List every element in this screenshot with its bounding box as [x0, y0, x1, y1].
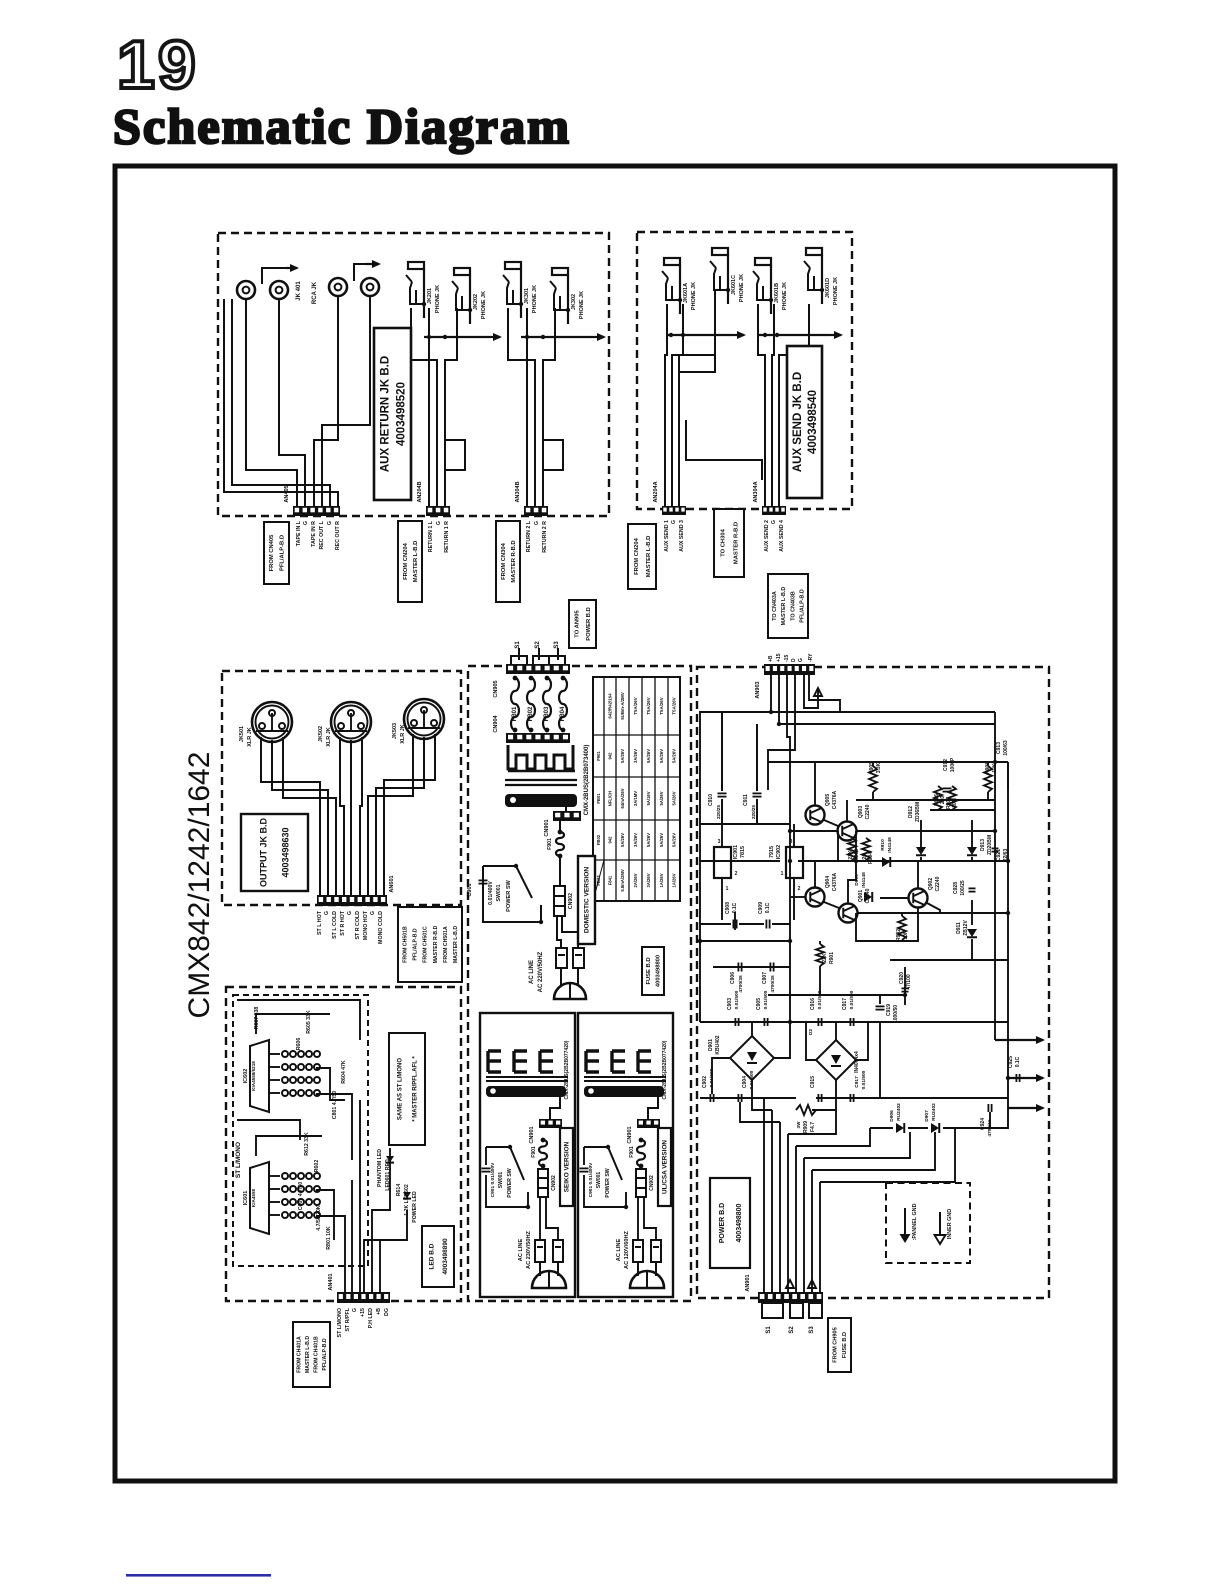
- wire XLR lead 6: [360, 737, 362, 895]
- svg-text:C920: C920: [899, 972, 905, 984]
- wire return1 1: [411, 308, 429, 506]
- version label SEIKO VERSION: [560, 1128, 573, 1206]
- wire cap bus: [700, 923, 731, 925]
- svg-text:PHONE JK: PHONE JK: [481, 291, 487, 319]
- transformer cores: [584, 1051, 666, 1097]
- wire mid vert 856: [855, 831, 857, 861]
- resistor R903 symbol: [848, 838, 856, 860]
- wire led b: [256, 1014, 330, 1034]
- ref TO CH304 MASTER R-B.D: [714, 509, 744, 577]
- capacitor C907 4700/35: [762, 963, 776, 993]
- svg-text:MASTER L-B.D: MASTER L-B.D: [305, 1336, 311, 1373]
- svg-text:FB03: FB03: [596, 875, 601, 886]
- svg-text:3: 3: [718, 839, 721, 845]
- svg-text:IC601: IC601: [243, 1191, 249, 1206]
- connector CN902 (SEIKO VERSION): [538, 1169, 557, 1197]
- wire vert 735: [734, 912, 736, 930]
- svg-text:F901: F901: [531, 1146, 537, 1158]
- capacitor C906 4700/35: [730, 963, 744, 993]
- svg-text:JK302: JK302: [571, 294, 577, 310]
- jack JK601A PHONE JK: [662, 258, 682, 314]
- tab S1: [762, 1303, 783, 1318]
- fuse FB04: [559, 676, 567, 733]
- svg-text:CMX-2BUS(2B2B077420): CMX-2BUS(2B2B077420): [564, 1040, 570, 1099]
- wire mid vert 838: [837, 831, 839, 861]
- svg-text:DG: DG: [384, 1308, 390, 1316]
- svg-text:CN904: CN904: [493, 715, 499, 733]
- ref FROM CH401A/B: [293, 1322, 330, 1387]
- AUX RETURN JK board dashed outline: [218, 233, 609, 516]
- capacitor C909 0.1C: [758, 902, 771, 929]
- svg-text:C911: C911: [743, 794, 749, 806]
- wire hbus 1098: [700, 1097, 796, 1099]
- svg-text:4003498800: 4003498800: [656, 955, 662, 987]
- svg-text:FROM CH501C: FROM CH501C: [423, 926, 429, 963]
- wire rail 762: [768, 761, 1008, 763]
- svg-text:2: 2: [798, 886, 801, 892]
- wire rail 810b: [930, 809, 995, 811]
- svg-text:FB04: FB04: [560, 706, 566, 721]
- op-amp IC601 KIA4558: [250, 1162, 320, 1234]
- svg-text:AN304A: AN304A: [753, 481, 759, 502]
- ref FROM CN204 MASTER L-B.D: [398, 521, 422, 602]
- capacitor C901: [467, 880, 488, 896]
- tab S2: [790, 1303, 803, 1318]
- jack JK501 XLR: [252, 702, 292, 742]
- footer blue rule: [126, 1574, 271, 1577]
- svg-text:0.01/500: 0.01/500: [817, 990, 823, 1009]
- svg-text:RU2402: RU2402: [931, 1103, 937, 1121]
- version label DOMESTIC: [578, 856, 595, 944]
- svg-text:D2: D2: [808, 1029, 814, 1035]
- svg-text:R901: R901: [829, 952, 835, 964]
- outer border frame: [115, 166, 1115, 1481]
- fuse FB01: [511, 676, 519, 733]
- wire aux send cross jog: [686, 420, 762, 480]
- svg-text:0.1C: 0.1C: [765, 902, 771, 913]
- svg-text:4700/35: 4700/35: [770, 975, 776, 993]
- wire led e: [237, 1120, 300, 1140]
- wire q904 leads: [814, 861, 816, 888]
- ref FROM CH905 FUSE B.D: [828, 1318, 851, 1372]
- svg-text:2: 2: [735, 871, 738, 877]
- wire fuse to CN902: [559, 856, 561, 886]
- resistor R904 symbol: [862, 838, 870, 860]
- connector AN405: [284, 485, 340, 516]
- plug prong holders (domestic): [556, 948, 567, 968]
- svg-text:Q901: Q901: [858, 890, 864, 902]
- wire led m: [364, 1210, 407, 1292]
- wire ground bus return2: [521, 333, 606, 341]
- svg-text:JK502: JK502: [318, 726, 324, 742]
- ref FROM CN304 MASTER R-B.D: [496, 521, 520, 602]
- wire aux send 4: [758, 304, 765, 506]
- svg-text:C801 4.7/50: C801 4.7/50: [332, 1091, 338, 1119]
- svg-text:C601 4.7/50: C601 4.7/50: [298, 1182, 304, 1210]
- svg-text:PHONE JK: PHONE JK: [435, 285, 441, 313]
- capacitor C910 220/25: [708, 793, 727, 819]
- svg-text:19: 19: [117, 27, 199, 103]
- wire led f: [256, 1136, 322, 1156]
- svg-text:AUX SEND 4: AUX SEND 4: [779, 520, 785, 552]
- svg-text:MASTER R-B.D: MASTER R-B.D: [733, 522, 739, 564]
- svg-text:F901: F901: [547, 838, 553, 850]
- jack JK401L RCA: [237, 281, 255, 299]
- svg-text:1: 1: [781, 871, 784, 877]
- svg-text:CN901: CN901: [544, 819, 550, 836]
- fuse F901 (SEIKO VERSION): [531, 1138, 547, 1169]
- svg-text:100/25: 100/25: [960, 880, 966, 896]
- svg-text:0.1C: 0.1C: [1015, 1056, 1021, 1067]
- svg-text:CMX842/1242/1642: CMX842/1242/1642: [183, 752, 216, 1019]
- svg-text:1000/50: 1000/50: [893, 1005, 899, 1023]
- regulator IC902 7915: [769, 839, 803, 892]
- svg-text:LED B.D: LED B.D: [428, 1243, 435, 1269]
- svg-text:5A/26V: 5A/26V: [659, 833, 664, 847]
- svg-text:PHONE JK: PHONE JK: [782, 282, 788, 310]
- wire arrow rec-out: [354, 260, 381, 281]
- wire led k: [368, 1240, 380, 1292]
- ground legend dashed box: [886, 1183, 970, 1263]
- plug (UL/CSA VERSION): [630, 1262, 664, 1288]
- svg-text:PHONE JK: PHONE JK: [739, 274, 745, 302]
- version sub-board outline (SEIKO VERSION): [480, 1013, 575, 1297]
- svg-text:-RY: -RY: [808, 653, 814, 662]
- svg-text:PHONE JK: PHONE JK: [532, 285, 538, 313]
- svg-text:RU2402: RU2402: [896, 1103, 902, 1121]
- svg-text:CN902: CN902: [649, 1175, 655, 1191]
- svg-text:PFL/ALP-B.D: PFL/ALP-B.D: [413, 928, 419, 961]
- svg-text:AC LINE: AC LINE: [518, 1239, 524, 1262]
- wire CN902 to plug (SEIKO VERSION): [539, 1197, 541, 1240]
- svg-text:AC 220V/50HZ: AC 220V/50HZ: [538, 951, 544, 992]
- wire diode bus: [870, 1127, 893, 1129]
- wire XLR lead 2: [272, 740, 328, 895]
- wire q902 leads: [917, 861, 919, 889]
- svg-text:D906: D906: [889, 1110, 895, 1122]
- jack JK302 PHONE JK: [550, 268, 570, 324]
- wire bend 6: [812, 1132, 935, 1170]
- svg-text:PFL/ALP-B.D: PFL/ALP-B.D: [280, 535, 286, 571]
- wire aux send 3: [679, 304, 715, 506]
- svg-text:C913: C913: [996, 742, 1002, 754]
- wire q901 collector: [848, 861, 856, 904]
- ref FROM CH501A/B/C: [398, 907, 462, 982]
- svg-text:AN204A: AN204A: [653, 481, 659, 502]
- svg-text:5A/26V: 5A/26V: [659, 749, 664, 763]
- svg-text:AC 230V/50HZ: AC 230V/50HZ: [526, 1230, 532, 1269]
- wire q905 leads: [814, 762, 816, 806]
- ref FROM CN405 PFL/ALP-B.D: [264, 522, 289, 584]
- svg-text:C901 0.01/400V: C901 0.01/400V: [588, 1162, 594, 1197]
- wire an901 7: [811, 1170, 813, 1292]
- wire led a: [237, 1000, 360, 1040]
- svg-text:5A/26V: 5A/26V: [646, 833, 651, 847]
- wire rail 861: [700, 860, 780, 862]
- wire secondary drop: [550, 1097, 560, 1119]
- wire RY rail: [809, 675, 840, 712]
- capacitor C904 0.01/500: [738, 1070, 755, 1102]
- wire reg io: [721, 824, 723, 847]
- svg-text:3.3K: 3.3K: [876, 762, 882, 773]
- wire rail 941: [700, 940, 790, 942]
- svg-text:3: 3: [790, 839, 793, 845]
- svg-text:S2: S2: [535, 641, 541, 649]
- svg-text:AN903: AN903: [755, 681, 761, 698]
- wire bend 7: [820, 1128, 955, 1182]
- connector CN901: [544, 811, 581, 837]
- wire zener rail 831: [856, 830, 995, 832]
- svg-text:FB01: FB01: [512, 706, 518, 721]
- svg-text:PHONE JK: PHONE JK: [833, 277, 839, 305]
- wire XLR lead 1: [261, 737, 320, 895]
- svg-text:5A/26V: 5A/26V: [672, 749, 677, 763]
- jack JK502 XLR: [331, 702, 371, 742]
- svg-text:R606: R606: [296, 1038, 302, 1051]
- wires caps row: [721, 712, 723, 791]
- svg-text:SW001: SW001: [596, 1172, 602, 1189]
- svg-text:R604 47K: R604 47K: [341, 1060, 347, 1084]
- svg-text:PFL/ALP-B.D: PFL/ALP-B.D: [800, 589, 806, 623]
- output arrows: [995, 1036, 1045, 1112]
- svg-text:1000P: 1000P: [950, 757, 956, 772]
- svg-text:AN901: AN901: [745, 1274, 751, 1291]
- svg-text:R605 33K: R605 33K: [306, 1010, 312, 1034]
- switch SW001 (UL/CSA VERSION): [584, 1145, 628, 1209]
- svg-text:ST R/PFL: ST R/PFL: [345, 1307, 351, 1331]
- svg-text:4003498630: 4003498630: [280, 827, 290, 877]
- wire aux send 5: [772, 304, 774, 506]
- plug prong holders (UL/CSA VERSION): [633, 1240, 643, 1262]
- svg-text:D907: D907: [924, 1110, 930, 1122]
- resistor R908 symbol: [984, 762, 992, 800]
- svg-text:C921: C921: [996, 849, 1002, 861]
- svg-text:REC OUT L: REC OUT L: [319, 520, 325, 549]
- wire +B rail: [700, 675, 771, 1022]
- switch SW001 POWER SW: [483, 864, 543, 924]
- capacitor C917 0.01/500: [842, 990, 855, 1026]
- svg-text:AUX SEND JK B.D: AUX SEND JK B.D: [792, 372, 804, 472]
- wire rail 800: [856, 799, 995, 801]
- wire an901 5: [795, 1146, 797, 1292]
- svg-text:G: G: [370, 911, 376, 915]
- transistor Q902 C2240: [909, 889, 928, 908]
- svg-text:5A/26V: 5A/26V: [672, 833, 677, 847]
- svg-text:G: G: [534, 521, 540, 525]
- wire RCA 3 to AN405: [314, 296, 338, 506]
- ref FROM CN204 MASTER L-B.D (send): [628, 524, 656, 589]
- svg-text:AUX RETURN JK B.D: AUX RETURN JK B.D: [379, 356, 391, 472]
- svg-text:PHONE JK: PHONE JK: [579, 291, 585, 319]
- svg-text:C901: C901: [467, 883, 473, 896]
- svg-text:7915: 7915: [769, 846, 775, 858]
- capacitor C918 0.01/500: [850, 1070, 867, 1102]
- svg-text:4003498540: 4003498540: [807, 390, 819, 454]
- capacitor C903 0.01/500: [727, 990, 740, 1026]
- svg-text:1A/26V: 1A/26V: [659, 873, 664, 887]
- svg-text:R612 33K: R612 33K: [304, 1132, 310, 1156]
- svg-text:FB01: FB01: [596, 793, 601, 804]
- svg-text:FUSE B.D: FUSE B.D: [646, 957, 652, 984]
- ref TO AN905 POWER B.D: [569, 600, 596, 648]
- wire an901 6: [803, 1158, 805, 1292]
- diode D907 RU2: [924, 1103, 939, 1133]
- svg-text:D913: D913: [980, 839, 986, 851]
- wire rail 913: [857, 912, 1008, 914]
- wire zener v1: [920, 820, 922, 843]
- svg-text:D911: D911: [956, 922, 962, 934]
- svg-text:XLR JK: XLR JK: [400, 724, 406, 744]
- tab: [511, 656, 527, 665]
- connector AN903: [755, 664, 815, 699]
- svg-text:FROM CH401A: FROM CH401A: [296, 1336, 302, 1373]
- svg-text:R909: R909: [803, 1121, 809, 1133]
- svg-text:ST R COLD: ST R COLD: [355, 911, 361, 940]
- svg-text:MASTER L-B.D: MASTER L-B.D: [413, 541, 419, 583]
- svg-text:CN902: CN902: [551, 1175, 557, 1191]
- svg-text:REC OUT R: REC OUT R: [335, 521, 341, 550]
- svg-text:Schematic Diagram: Schematic Diagram: [113, 98, 571, 154]
- svg-text:JK601A: JK601A: [683, 283, 689, 303]
- jack JK201 PHONE JK: [406, 262, 426, 318]
- svg-text:TO CH304: TO CH304: [721, 528, 727, 556]
- svg-text:C917: C917: [842, 998, 848, 1010]
- svg-text:F4.7: F4.7: [810, 1122, 816, 1132]
- tab: [549, 656, 565, 665]
- wire led j: [359, 1100, 361, 1292]
- svg-text:MASTER R-B.D: MASTER R-B.D: [433, 925, 439, 963]
- ST L/MONO sub dashed outline: [233, 995, 368, 1266]
- svg-text:AN601: AN601: [389, 875, 395, 892]
- jack RCA-R RCA: [361, 278, 379, 296]
- svg-text:3W: 3W: [796, 1121, 801, 1129]
- svg-text:CN901: CN901: [529, 1126, 535, 1143]
- svg-text:5.8mA/2MV: 5.8mA/2MV: [620, 869, 625, 892]
- svg-text:FROM CN204: FROM CN204: [403, 542, 409, 579]
- svg-text:IN4148: IN4148: [861, 872, 867, 888]
- wire led d: [316, 1094, 352, 1160]
- svg-text:F901: F901: [629, 1146, 635, 1158]
- svg-text:0.01/500: 0.01/500: [861, 1070, 867, 1089]
- board label AUX SEND JK B.D: [787, 346, 822, 498]
- remote box: [804, 675, 822, 708]
- svg-text:ZD36BM: ZD36BM: [915, 802, 921, 822]
- connector CN905: [493, 664, 570, 698]
- wire bend 4: [796, 1128, 870, 1146]
- svg-text:FB03: FB03: [544, 706, 550, 721]
- diode D906 RU2: [889, 1103, 904, 1133]
- svg-text:C906: C906: [730, 972, 736, 984]
- svg-text:UL/CSA VERSION: UL/CSA VERSION: [662, 1140, 669, 1194]
- svg-text:POWER B.D: POWER B.D: [586, 607, 592, 641]
- svg-text:642/R42/164: 642/R42/164: [608, 693, 613, 719]
- svg-text:AN405: AN405: [284, 485, 290, 502]
- svg-text:G: G: [303, 521, 309, 525]
- wire D rail: [768, 675, 795, 762]
- wire secondary drop: [648, 1097, 658, 1119]
- wire bridge2 top: [835, 1022, 837, 1040]
- ground panel gnd symbol: [900, 1203, 919, 1243]
- resistor R902 symbol: [898, 913, 906, 940]
- wire bridge2 bot: [835, 1080, 837, 1098]
- svg-text:TO AN905: TO AN905: [575, 610, 581, 638]
- transformer T901 core: [505, 780, 577, 785]
- connector AN304B: [515, 481, 548, 516]
- svg-text:R607 338: R607 338: [254, 1007, 260, 1030]
- wire zener v2: [971, 820, 973, 843]
- transistor Q905 C4376A: [806, 806, 825, 825]
- svg-text:XLR JK: XLR JK: [247, 727, 253, 747]
- svg-text:JK601D: JK601D: [825, 278, 831, 298]
- capacitor C901 (SEIKO VERSION): [482, 1162, 497, 1197]
- svg-text:100/63: 100/63: [1003, 740, 1009, 756]
- svg-text:0.01/500: 0.01/500: [734, 990, 740, 1009]
- svg-text:+B: +B: [768, 655, 774, 662]
- wire rail 967: [713, 966, 790, 968]
- svg-text:C4376A: C4376A: [832, 790, 838, 809]
- capacitor C905 0.01/500: [756, 990, 769, 1026]
- svg-text:942: 942: [608, 836, 613, 844]
- resistor R907 symbol: [948, 786, 956, 810]
- fuse FB03: [543, 676, 551, 733]
- svg-text:2A/26V: 2A/26V: [633, 873, 638, 887]
- svg-text:POWER SW: POWER SW: [506, 879, 512, 911]
- svg-text:ST L HOT: ST L HOT: [317, 910, 323, 935]
- svg-text:4003498890: 4003498890: [442, 1238, 449, 1275]
- svg-text:RETURN 2 L: RETURN 2 L: [526, 520, 532, 552]
- junctions: [698, 710, 1010, 1024]
- svg-text:+B: +B: [376, 1308, 382, 1315]
- bridge rectifier D901 KBU402: [708, 1035, 774, 1080]
- svg-text:G: G: [352, 1308, 358, 1312]
- svg-text:JK601B: JK601B: [774, 283, 780, 303]
- resistor R905 symbol: [869, 762, 877, 800]
- svg-text:POWER B.D: POWER B.D: [719, 1203, 726, 1243]
- wire vert cap913: [1007, 762, 1009, 790]
- svg-text:C915: C915: [810, 1076, 816, 1088]
- jack JK601B PHONE JK: [753, 258, 773, 314]
- wire -15 rail: [787, 675, 790, 1022]
- svg-text:TAPE IN L: TAPE IN L: [296, 520, 302, 546]
- svg-text:0.01/500: 0.01/500: [849, 990, 855, 1009]
- capacitor C911 220/25: [743, 793, 762, 819]
- svg-text:AUX SEND 3: AUX SEND 3: [679, 520, 685, 552]
- plug (SEIKO VERSION): [532, 1262, 566, 1288]
- wire return jog: [445, 360, 465, 470]
- zener D912 ZD36BM: [908, 802, 926, 855]
- jack JK202 PHONE JK: [452, 268, 472, 324]
- svg-text:FROM CN304: FROM CN304: [501, 542, 507, 579]
- svg-text:FROM CH501A: FROM CH501A: [443, 926, 449, 963]
- svg-text:4003498520: 4003498520: [395, 382, 407, 446]
- svg-text:OUTPUT JK B.D: OUTPUT JK B.D: [258, 818, 268, 888]
- wire RCA 4 to AN405: [322, 296, 370, 506]
- svg-text:C902: C902: [702, 1076, 708, 1088]
- svg-text:C901 0.01/400V: C901 0.01/400V: [490, 1162, 496, 1197]
- svg-text:LED601 RED: LED601 RED: [385, 1159, 391, 1191]
- wire bridge1 left: [712, 1058, 730, 1094]
- svg-text:5A/26V: 5A/26V: [620, 833, 625, 847]
- svg-text:R602: R602: [314, 1160, 320, 1173]
- svg-text:AUX SEND 2: AUX SEND 2: [764, 520, 770, 552]
- svg-text:IC602: IC602: [243, 1069, 249, 1084]
- ground inner gnd symbol: [935, 1209, 954, 1244]
- wire an901 1: [763, 1098, 765, 1292]
- board label POWER B.D: [710, 1178, 750, 1268]
- connector AN401: [328, 1273, 390, 1303]
- transformer T901 primary winding: [508, 745, 575, 771]
- wire ground bus return1: [424, 333, 502, 341]
